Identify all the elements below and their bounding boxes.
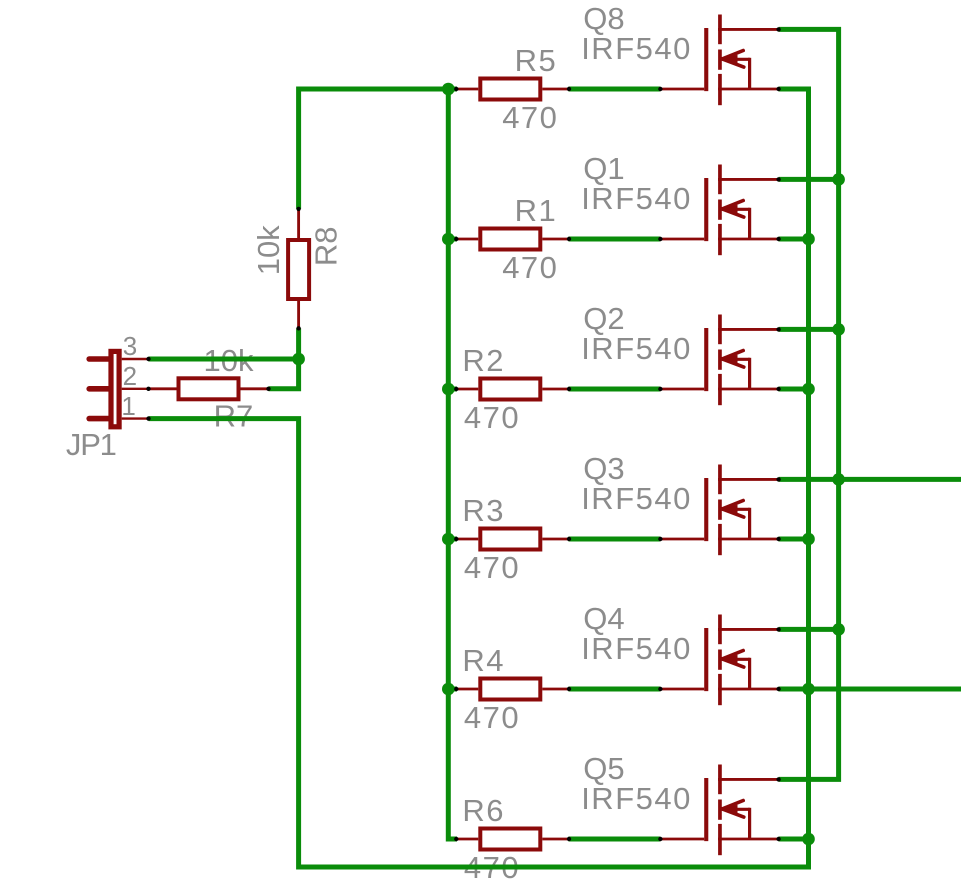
wire: junction node down, left to R7 right pin [269,359,299,389]
node: inner bus junction at Q3 source [802,533,815,546]
wire: bus stub to R2 left pin [448,387,457,392]
wire: Q2 drain to outer bus [779,327,839,332]
wire: drain net: Q8 drain, outer bus, Q5 drain [779,29,839,779]
node: outer bus junction at Q1 drain [832,173,845,186]
svg-text:10k: 10k [251,225,286,275]
wire: JP1 pin3 to junction node [149,357,299,362]
svg-text:R3: R3 [462,493,505,528]
wire: Q4 source to inner bus [779,687,961,692]
transistor Q4 (IRF540 n-mosfet) [660,615,778,706]
svg-text:IRF540: IRF540 [581,31,692,66]
wire: Q5 source to inner bus [779,837,809,842]
transistor Q3 (IRF540 n-mosfet) [660,465,778,556]
node: outer bus junction at Q4 drain [832,623,845,636]
wire: R1 right pin to Q1 gate pin [569,237,661,242]
svg-text:R4: R4 [462,643,505,678]
wire: left vertical bus (gate drive net) [446,89,451,842]
wire: junction node up to R8 bottom pin [296,328,301,359]
wire: Q2 source to inner bus [779,387,809,392]
transistor Q5 (IRF540 n-mosfet) [660,765,778,856]
svg-text:IRF540: IRF540 [581,781,692,816]
wire: R8 top pin up, right to left bus [299,89,449,209]
resistor R2 [455,379,569,400]
svg-text:2: 2 [123,361,137,391]
wire: Q1 drain to outer bus [779,177,839,182]
svg-text:R6: R6 [462,793,505,828]
node: junction JP1 pin3 / R7 / R8 [292,353,305,366]
svg-text:1: 1 [121,391,135,421]
svg-text:470: 470 [502,100,558,135]
svg-text:R8: R8 [309,226,344,266]
wire: bus stub to R5 left pin [448,87,457,92]
wire: R6 right pin to Q5 gate pin [569,837,661,842]
wire: bus stub to R1 left pin [448,237,457,242]
node: left bus junction at R2 [442,383,455,396]
svg-text:IRF540: IRF540 [581,631,692,666]
resistor R3 [455,529,569,550]
svg-text:R1: R1 [515,193,558,228]
node: inner bus junction at Q4 source [802,683,815,696]
svg-text:470: 470 [464,400,520,435]
svg-text:R2: R2 [462,343,505,378]
svg-text:3: 3 [123,331,137,361]
wire: bus stub to R6 left pin [448,837,457,842]
transistor Q2 (IRF540 n-mosfet) [660,315,778,406]
wire: bus stub to R4 left pin [448,687,457,692]
svg-text:IRF540: IRF540 [581,331,692,366]
node: inner bus junction at Q2 source [802,383,815,396]
wire: bus stub to R3 left pin [448,537,457,542]
node: pin connection dots [146,27,781,841]
wire: R3 right pin to Q3 gate pin [569,537,661,542]
node: left bus junction at R5 [442,83,455,96]
connector JP1 [89,351,148,426]
node: left bus junction at R3 [442,533,455,546]
resistor R1 [455,229,569,250]
wire: source net: Q8 source, inner bus, bottom run, up to JP1 pin1 [149,89,809,867]
transistor Q8 (IRF540 n-mosfet) [660,15,778,106]
svg-text:JP1: JP1 [66,427,116,462]
resistor R7 [149,378,269,399]
node: inner bus junction at Q1 source [802,233,815,246]
svg-text:470: 470 [464,550,520,585]
resistor R4 [455,679,569,700]
svg-text:IRF540: IRF540 [581,481,692,516]
node: left bus junction at R1 [442,233,455,246]
wire: R4 right pin to Q4 gate pin [569,687,661,692]
node: outer bus junction at Q3 drain [832,473,845,486]
svg-text:IRF540: IRF540 [581,181,692,216]
wire: Q1 source to inner bus [779,237,809,242]
svg-text:R7: R7 [214,399,254,434]
transistor Q1 (IRF540 n-mosfet) [660,165,778,256]
wire: Q3 drain to outer bus [779,477,961,482]
resistor R6 [455,829,569,850]
wire: Q3 source to inner bus [779,537,809,542]
wire: Q4 drain to outer bus [779,627,839,632]
resistor R5 [455,79,569,100]
node: left bus junction at R4 [442,683,455,696]
svg-text:470: 470 [502,250,558,285]
wire: R5 right pin to Q8 gate pin [569,87,661,92]
node: outer bus junction at Q2 drain [832,323,845,336]
resistor R8 [288,209,309,328]
node: inner bus junction at Q5 source [802,833,815,846]
svg-text:470: 470 [464,700,520,735]
wire: R2 right pin to Q2 gate pin [569,387,661,392]
svg-text:R5: R5 [515,43,558,78]
